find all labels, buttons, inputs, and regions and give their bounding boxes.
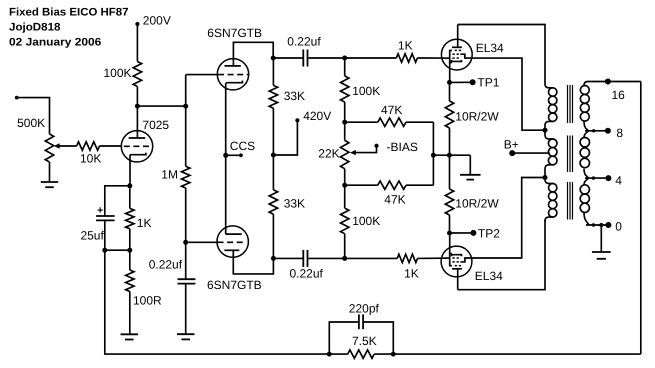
resistor 100R	[126, 270, 162, 307]
resistor 47K (top)	[378, 103, 406, 126]
wire to grid cap	[185, 242, 187, 279]
svg-text:1K: 1K	[398, 39, 413, 53]
resistor 33K (top)	[269, 85, 305, 108]
wire to top coupling cap	[273, 57, 302, 59]
terminal 16	[605, 79, 625, 103]
wire cathode V2A to anode V2B	[225, 83, 227, 234]
svg-text:JojoD818: JojoD818	[9, 21, 61, 33]
resistor 10R/2W (top)	[445, 101, 499, 128]
wire 6SN7 top anode	[233, 42, 273, 66]
transformer primary section C	[545, 178, 557, 223]
svg-text:0: 0	[615, 219, 622, 233]
tube 6SN7GTB V2B (bottom)	[207, 226, 262, 292]
svg-text:4: 4	[615, 173, 622, 187]
svg-text:33K: 33K	[284, 89, 305, 103]
svg-text:7025: 7025	[142, 118, 169, 132]
wire bottom junction to 47K	[345, 184, 378, 186]
svg-text:-BIAS: -BIAS	[387, 140, 418, 154]
wire 1K to EL34 grid	[417, 57, 441, 59]
svg-text:CCS: CCS	[230, 139, 255, 153]
wire top grid node to 1K	[345, 57, 397, 59]
node coupling top	[271, 56, 276, 61]
resistor 7.5K feedback	[348, 334, 377, 358]
wire 10K to 7025 grid	[100, 145, 122, 147]
wire V2B cathode	[233, 250, 273, 274]
wire center to 33K bottom	[272, 155, 274, 190]
ground (secondary)	[592, 251, 611, 253]
node -BIAS	[355, 140, 418, 154]
transformer secondary section 3	[580, 178, 589, 225]
transformer secondary section 1	[580, 82, 589, 131]
wire EL34 bottom anode to transformer	[458, 220, 545, 290]
wire top cap to grid node	[308, 57, 344, 59]
potentiometer 500K	[17, 116, 60, 162]
wire bottom feedback run left	[329, 353, 347, 355]
node top bias junction	[342, 120, 347, 125]
wire to bias ground	[469, 155, 471, 175]
svg-text:TP1: TP1	[477, 76, 499, 90]
wire 47K top to bus	[406, 121, 433, 123]
resistor 1M	[161, 166, 190, 188]
svg-text:10K: 10K	[80, 152, 101, 166]
node 1K/100R junction	[127, 248, 132, 253]
transformer core	[568, 85, 573, 220]
transformer secondary section 2	[580, 131, 589, 178]
svg-text:200V: 200V	[143, 14, 171, 28]
wire to bottom coupling cap	[273, 257, 302, 259]
svg-text:02 January 2006: 02 January 2006	[9, 36, 101, 48]
svg-text:6SN7GTB: 6SN7GTB	[207, 26, 262, 40]
resistor 100K plate load	[103, 62, 141, 87]
tube 6SN7GTB V2A (top)	[207, 26, 262, 90]
wire junction to 100K bottom	[344, 185, 346, 208]
input terminal	[15, 96, 19, 100]
svg-text:1K: 1K	[404, 267, 419, 281]
capacitor 25uf	[80, 204, 114, 242]
svg-text:Fixed Bias EICO HF87: Fixed Bias EICO HF87	[9, 6, 129, 18]
svg-text:100K: 100K	[352, 214, 380, 228]
wire screen UL tap (top)	[472, 58, 545, 130]
node coupling bottom	[271, 256, 276, 261]
svg-text:6SN7GTB: 6SN7GTB	[207, 278, 262, 292]
wire bias ground run	[433, 154, 470, 156]
terminal 0	[605, 219, 622, 233]
svg-text:100R: 100R	[133, 293, 162, 307]
wire 25uf to junction	[104, 220, 106, 250]
resistor 100K (top bias)	[341, 76, 381, 102]
node cathode bus	[447, 153, 452, 158]
title text	[9, 6, 129, 48]
svg-text:10R/2W: 10R/2W	[455, 197, 499, 211]
wire grid top 6SN7	[186, 74, 218, 76]
capacitor 0.22uf (top coupling)	[287, 35, 321, 67]
node CCS tap	[223, 139, 255, 158]
wire 1K bottom	[129, 229, 131, 250]
node 47K bus	[431, 153, 436, 158]
wire bottom grid node to 1K	[345, 257, 398, 259]
tap 0 wire	[586, 223, 608, 227]
wire 1K top	[129, 186, 131, 209]
svg-text:25uf: 25uf	[80, 229, 104, 243]
wire 10R to TP2	[449, 215, 451, 233]
resistor 1K (top grid stopper)	[396, 39, 417, 63]
resistor 1K cathode	[126, 208, 152, 230]
resistor 100K (bottom bias)	[341, 208, 381, 234]
node B+	[504, 137, 550, 156]
wire bottom grid	[186, 241, 217, 243]
svg-text:16: 16	[612, 88, 626, 102]
wire right edge (16 ohm to feedback)	[640, 82, 642, 355]
wire 1K to EL34 grid (bottom)	[418, 257, 442, 259]
node feedback left	[327, 352, 332, 357]
wire grid cap to ground	[185, 284, 187, 335]
node cathode junction	[127, 183, 132, 188]
svg-text:0.22uf: 0.22uf	[290, 267, 324, 281]
node TP1 junction	[447, 80, 452, 85]
wire 100R to ground	[129, 292, 131, 335]
svg-text:TP2: TP2	[478, 226, 500, 240]
svg-text:100K: 100K	[352, 84, 380, 98]
wire top junction to 47K	[345, 121, 378, 123]
wire bottom cap to grid node	[308, 257, 344, 259]
wire node A down to 7025 plate	[136, 106, 138, 138]
test point TP2	[450, 226, 501, 240]
svg-text:1M: 1M	[161, 168, 178, 182]
svg-text:0.22uf: 0.22uf	[287, 35, 321, 49]
svg-text:10R/2W: 10R/2W	[455, 109, 499, 123]
svg-text:EL34: EL34	[476, 41, 504, 55]
capacitor 0.22uf (bottom coupling)	[290, 250, 324, 281]
wire grid node to 100K	[344, 58, 346, 76]
svg-text:220pf: 220pf	[349, 301, 380, 315]
svg-text:47K: 47K	[381, 103, 402, 117]
resistor 10R/2W (bottom)	[445, 189, 499, 215]
wire 47K bottom to bus	[406, 184, 433, 186]
wire junction to 22K	[344, 122, 346, 140]
capacitor 220pf feedback	[329, 301, 393, 354]
wire input to 500K	[17, 98, 50, 134]
svg-text:B+: B+	[504, 137, 519, 151]
wire 16 ohm tap	[588, 81, 641, 83]
node B (grid of V2A via 1M)	[183, 104, 188, 109]
svg-text:47K: 47K	[384, 192, 405, 206]
svg-text:420V: 420V	[303, 109, 331, 123]
transformer primary section A	[545, 84, 557, 130]
svg-text:+: +	[97, 204, 103, 216]
wire screen UL tap (bottom)	[472, 178, 545, 259]
wire feedback left branch	[105, 250, 329, 354]
wire 33K bottom to node	[272, 214, 274, 258]
terminal 4	[605, 173, 622, 187]
wire junction link	[105, 249, 130, 251]
wire coupling node to 33K	[272, 58, 274, 85]
node UL tap 2	[543, 175, 548, 180]
wire node A to node B	[137, 105, 185, 107]
wire wiper to 10K	[59, 145, 77, 147]
wire 100K to plate node	[136, 87, 138, 107]
wire to 10R top	[449, 82, 451, 101]
potentiometer 22K	[318, 140, 356, 168]
wire EL34 anode to transformer	[458, 25, 545, 85]
resistor 10K	[77, 142, 102, 166]
node 25uf bottom	[102, 248, 107, 253]
transformer primary section B	[545, 130, 557, 177]
test point TP1	[450, 76, 500, 90]
svg-text:33K: 33K	[284, 197, 305, 211]
wire 200V to 100K	[136, 24, 138, 62]
node 420V	[273, 109, 331, 155]
terminal 8	[605, 126, 624, 140]
resistor 47K (bottom)	[378, 181, 406, 206]
tap 8 wire	[585, 129, 608, 132]
svg-text:500K: 500K	[17, 116, 45, 130]
wire 100K to pot	[344, 102, 346, 122]
wire 7025 cathode down	[129, 155, 131, 186]
svg-text:8: 8	[616, 126, 623, 140]
wire 100K bottom to grid node	[344, 234, 346, 259]
node grid/1M junction	[183, 240, 188, 245]
node plate junction A	[135, 104, 140, 109]
tube EL34 (top)	[441, 25, 504, 83]
tube 7025 V1	[121, 118, 169, 162]
wire cathode bus to 10R bottom	[449, 155, 451, 189]
ground (grid cap)	[177, 333, 195, 335]
svg-text:0.22uf: 0.22uf	[149, 258, 183, 272]
capacitor 0.22uf (grid return)	[149, 258, 196, 284]
ground (100R)	[121, 333, 139, 335]
svg-text:1K: 1K	[137, 216, 152, 230]
resistor 1K (bottom grid stopper)	[397, 254, 419, 280]
wire 500K to ground	[49, 162, 51, 182]
wire to 100R	[129, 250, 131, 270]
wire bottom feedback run right	[374, 353, 641, 355]
ground (bias/cathode)	[460, 174, 481, 176]
svg-text:7.5K: 7.5K	[352, 334, 377, 348]
ground (500K)	[41, 181, 59, 183]
wire 47K bus vertical	[432, 122, 434, 185]
wire node B vertical	[185, 75, 187, 167]
node feedback right	[391, 352, 396, 357]
wire 33K to center	[272, 108, 274, 155]
node 33K center	[271, 153, 276, 158]
wire 1M to bottom grid	[185, 188, 187, 242]
svg-text:100K: 100K	[103, 66, 131, 80]
wire 0 tap to ground	[600, 225, 602, 252]
tap 4 wire	[585, 176, 608, 179]
tube EL34 (bottom)	[441, 233, 503, 290]
node UL tap 1	[543, 128, 548, 133]
node TP2 junction	[447, 231, 452, 236]
node bottom grid	[342, 256, 347, 261]
node top grid	[342, 56, 347, 61]
node bottom bias junction	[342, 183, 347, 188]
svg-text:EL34: EL34	[475, 269, 503, 283]
svg-text:22K: 22K	[318, 147, 339, 161]
wire 22K to bottom junction	[344, 169, 346, 186]
resistor 33K (bottom)	[269, 190, 305, 214]
wire cathode junction to 25uf	[105, 186, 130, 216]
node 200V	[135, 14, 171, 28]
wire 10R to cathode bus	[449, 128, 451, 155]
